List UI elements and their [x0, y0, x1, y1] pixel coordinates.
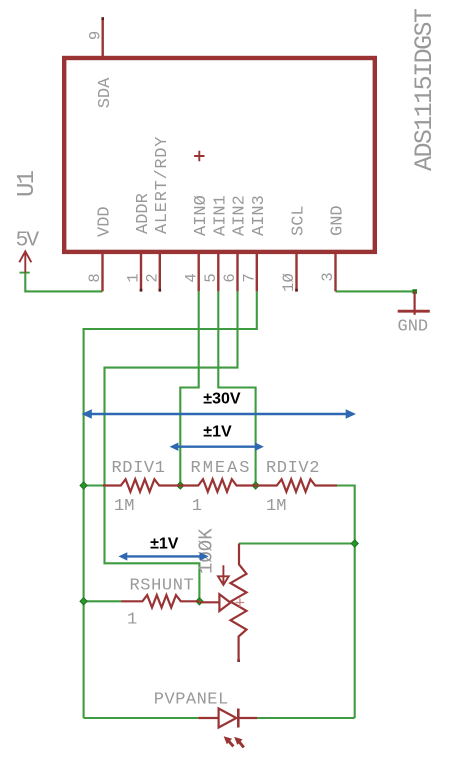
- svg-text:5: 5: [202, 273, 220, 282]
- svg-text:U1: U1: [14, 170, 41, 197]
- svg-text:ALERT/RDY: ALERT/RDY: [153, 136, 172, 234]
- svg-text:PVPANEL: PVPANEL: [154, 691, 229, 710]
- svg-text:ADDR: ADDR: [134, 193, 153, 234]
- svg-text:ADS1115IDGST: ADS1115IDGST: [410, 8, 439, 171]
- svg-text:1M: 1M: [266, 497, 286, 516]
- svg-text:3: 3: [319, 272, 337, 281]
- svg-text:5V: 5V: [16, 229, 40, 253]
- svg-text:±30V: ±30V: [203, 391, 241, 408]
- svg-text:2: 2: [143, 273, 161, 282]
- svg-text:SDA: SDA: [96, 77, 115, 108]
- svg-text:±1V: ±1V: [150, 536, 179, 553]
- svg-text:AINØ: AINØ: [192, 195, 211, 236]
- svg-text:1ØØK: 1ØØK: [196, 528, 218, 574]
- svg-text:VDD: VDD: [96, 206, 115, 237]
- svg-text:8: 8: [86, 273, 104, 282]
- svg-text:GND: GND: [329, 205, 348, 236]
- svg-text:RDIV1: RDIV1: [112, 459, 166, 478]
- svg-text:RDIV2: RDIV2: [266, 459, 320, 478]
- svg-text:1Ø: 1Ø: [280, 273, 298, 292]
- svg-text:AIN2: AIN2: [231, 195, 250, 236]
- svg-text:AIN1: AIN1: [212, 195, 231, 236]
- svg-text:SCL: SCL: [290, 205, 309, 236]
- svg-text:4: 4: [182, 273, 200, 282]
- svg-text:6: 6: [221, 273, 239, 282]
- svg-text:RMEAS: RMEAS: [191, 459, 252, 478]
- svg-text:9: 9: [87, 31, 105, 40]
- svg-text:1: 1: [127, 611, 137, 630]
- svg-text:AIN3: AIN3: [250, 195, 269, 236]
- svg-text:RSHUNT: RSHUNT: [130, 577, 195, 596]
- svg-text:±1V: ±1V: [203, 424, 232, 441]
- svg-text:1M: 1M: [114, 497, 134, 516]
- svg-text:1: 1: [125, 273, 143, 282]
- svg-text:1: 1: [192, 497, 202, 516]
- svg-text:7: 7: [240, 273, 258, 282]
- svg-text:GND: GND: [398, 318, 429, 337]
